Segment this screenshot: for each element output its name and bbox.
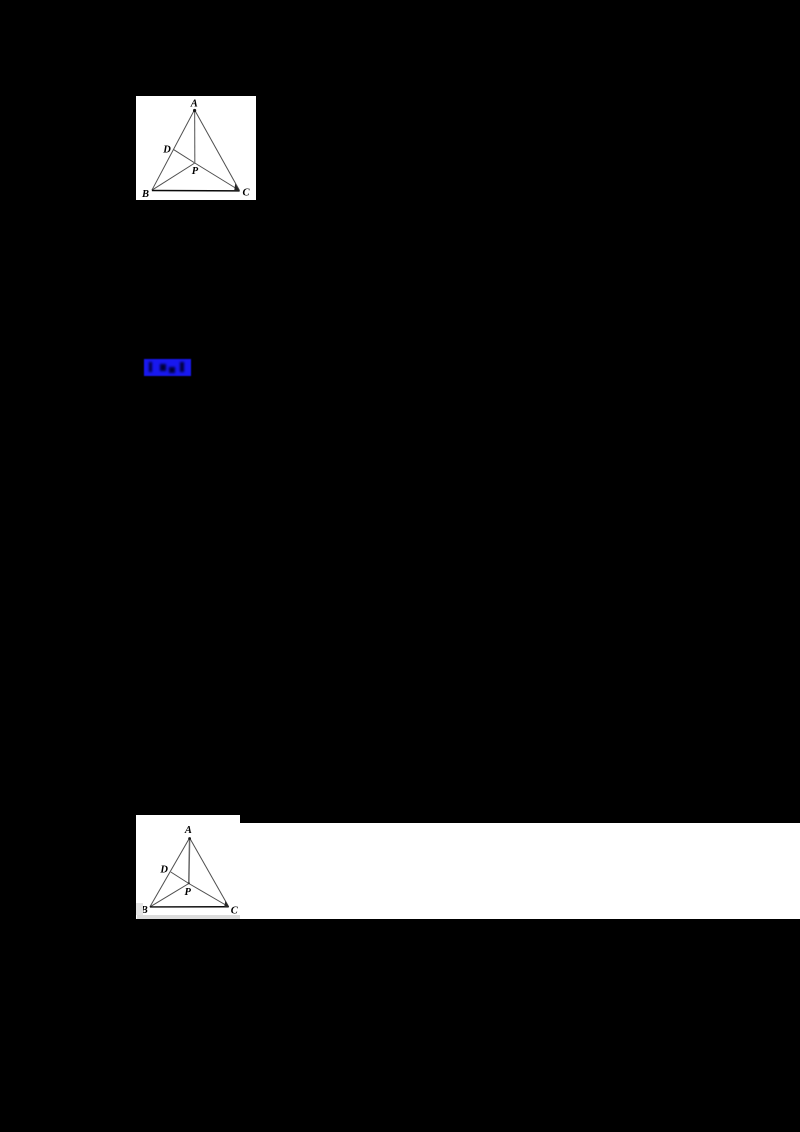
svg-text:D: D: [162, 145, 171, 156]
svg-text:A: A: [184, 825, 192, 836]
svg-text:P: P: [192, 166, 199, 177]
svg-text:P: P: [184, 887, 191, 898]
svg-text:C: C: [242, 188, 250, 199]
svg-text:A: A: [190, 99, 198, 110]
svg-text:B: B: [141, 189, 149, 200]
svg-text:D: D: [159, 865, 168, 876]
